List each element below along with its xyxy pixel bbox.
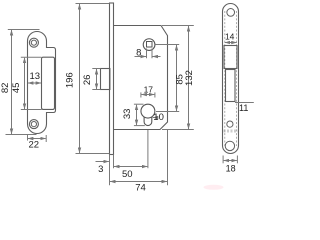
lock case body — [114, 26, 168, 130]
pink scan smudge — [204, 185, 224, 190]
dim 82 line — [11, 30, 13, 134]
dim 17 line — [141, 94, 154, 96]
dim 33 extension lines — [134, 103, 144, 105]
dim 22 extension lines — [27, 135, 29, 141]
dim 22 line — [28, 138, 46, 140]
front latch cutout — [224, 46, 237, 69]
dim 196 extension lines — [76, 3, 110, 5]
lower extension line case back — [167, 130, 169, 185]
lower extension line faceplate back — [113, 155, 115, 169]
dim 18 line — [224, 160, 237, 162]
front bottom screw hole — [225, 141, 234, 150]
dim 3 arrow — [96, 161, 109, 163]
dim 26 line — [96, 69, 98, 89]
strike plate outline — [28, 32, 56, 134]
front small hole — [227, 121, 233, 127]
dim 85 extension lines — [155, 44, 179, 46]
svg-text:14: 14 — [225, 31, 235, 41]
front top screw hole — [227, 9, 235, 17]
strike plate latch cutout — [42, 57, 55, 109]
svg-text:13: 13 — [30, 71, 41, 82]
lower extension line cylinder axis — [147, 130, 149, 168]
lower extension line faceplate front — [109, 155, 111, 186]
svg-text:33: 33 — [122, 109, 133, 120]
dim 26 extension lines — [92, 68, 100, 70]
dim 132 line — [188, 26, 190, 129]
spindle follower circle — [143, 39, 155, 51]
dim 85 line — [176, 45, 178, 111]
dim 82 extension lines — [8, 29, 40, 31]
svg-text:17: 17 — [144, 84, 154, 94]
dim 14 line — [225, 42, 237, 44]
dim 45 line — [24, 58, 26, 109]
svg-text:50: 50 — [122, 169, 133, 180]
dim 8 extension lines — [146, 49, 148, 59]
strike plate top screw hole — [29, 38, 38, 47]
svg-text:3: 3 — [98, 164, 103, 175]
svg-text:22: 22 — [29, 140, 40, 151]
svg-text:10: 10 — [153, 112, 164, 123]
dim 132 extension lines — [162, 25, 194, 27]
spindle square hole — [147, 42, 153, 48]
svg-text:11: 11 — [239, 103, 248, 113]
dim 11 leader — [235, 102, 254, 104]
dim 18 extension lines — [222, 156, 224, 164]
dim 13 line — [28, 82, 41, 84]
svg-text:45: 45 — [11, 83, 22, 94]
svg-text:74: 74 — [135, 182, 146, 192]
front hidden magnet lines — [224, 129, 239, 131]
svg-text:18: 18 — [226, 164, 236, 174]
lock faceplate side view — [110, 3, 114, 155]
dim 8 arrows — [135, 56, 147, 58]
dim 45 extension lines — [21, 56, 42, 58]
front faceplate hidden edge lines — [224, 11, 226, 146]
euro cylinder slot — [144, 117, 152, 126]
dim 74 line — [110, 181, 167, 183]
dim 17 extension lines — [140, 92, 142, 97]
svg-text:26: 26 — [82, 75, 93, 86]
dim 10 arrow — [153, 117, 156, 119]
dim 196 line — [79, 4, 81, 153]
front faceplate outline — [223, 4, 239, 154]
svg-text:82: 82 — [0, 83, 11, 94]
latch bolt — [101, 69, 110, 90]
dim 33 line — [136, 105, 138, 125]
svg-text:196: 196 — [65, 72, 76, 88]
svg-text:8: 8 — [136, 47, 141, 58]
svg-text:132: 132 — [184, 70, 195, 86]
strike plate bottom screw hole — [29, 120, 38, 129]
front cylinder cutout — [226, 70, 236, 102]
euro cylinder circle — [141, 104, 155, 118]
dim 50 line — [114, 166, 147, 168]
